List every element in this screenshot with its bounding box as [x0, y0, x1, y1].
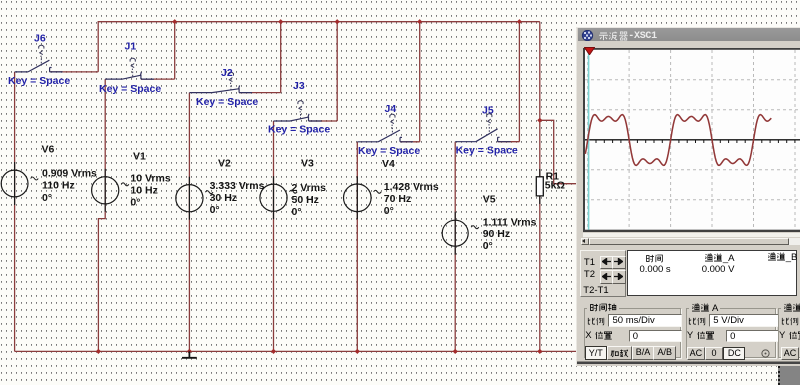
svg-text:V3: V3 [301, 158, 314, 170]
switch J2 closed [189, 85, 252, 92]
cursor readout labels [584, 257, 595, 268]
source V1 circle [92, 177, 119, 204]
wire J4 riser [419, 22, 421, 142]
svg-text:Key = Space: Key = Space [99, 83, 161, 95]
svg-text:V1: V1 [133, 151, 146, 163]
svg-text:10 Hz: 10 Hz [130, 185, 157, 197]
wire J5 right lead [498, 141, 520, 143]
switch J6 key symbol [39, 45, 44, 57]
wire J6 right lead [50, 71, 99, 73]
switch J3 closed [274, 114, 322, 121]
display bottom highlight [583, 233, 800, 236]
switch J4 open [357, 130, 413, 142]
svg-text:50 Hz: 50 Hz [292, 194, 319, 206]
resistor R1 leads [539, 169, 541, 177]
wire V2 branch [188, 93, 190, 352]
wire J3 riser [336, 22, 338, 121]
title bar [578, 28, 800, 41]
svg-text:V4: V4 [382, 158, 395, 170]
svg-text:0°: 0° [384, 205, 394, 217]
svg-text:V6: V6 [42, 144, 55, 156]
svg-text:J3: J3 [293, 80, 305, 92]
wire V5 branch [454, 142, 456, 352]
svg-text:2 Vrms: 2 Vrms [292, 182, 327, 194]
ground symbol [182, 351, 197, 357]
wire V3 branch [273, 121, 275, 351]
source V2 circle [176, 185, 203, 212]
wire J4 right lead [400, 141, 420, 143]
timebase group box [584, 308, 681, 359]
wire R1 riser [539, 22, 541, 177]
svg-text:J4: J4 [385, 103, 397, 115]
svg-text:5kΩ: 5kΩ [545, 180, 565, 192]
svg-text:0°: 0° [130, 197, 140, 209]
svg-text:3.333 Vrms: 3.333 Vrms [210, 180, 265, 192]
switch J1 closed [105, 72, 154, 79]
source V5 circle [442, 220, 468, 246]
window bottom edge [577, 361, 800, 363]
source V6 circle [1, 170, 28, 197]
svg-text:70 Hz: 70 Hz [384, 193, 411, 205]
wire V4 branch [356, 142, 358, 352]
oscilloscope window [576, 27, 800, 366]
svg-text:1.428 Vrms: 1.428 Vrms [384, 181, 439, 193]
svg-text:1.111 Vrms: 1.111 Vrms [483, 216, 537, 228]
channel B group box (cut) [778, 308, 800, 359]
source V4 lead [356, 176, 358, 219]
svg-text:V2: V2 [218, 158, 231, 170]
source V4 tilde [374, 190, 382, 193]
wire J5 riser [518, 22, 520, 142]
wire scope channel A [540, 120, 578, 183]
source V1 tilde [121, 183, 129, 186]
wire J1 right lead [141, 78, 175, 80]
svg-text:Key = Space: Key = Space [358, 145, 420, 157]
labels black [42, 144, 565, 252]
resistor R1 body [536, 177, 543, 196]
source V2 tilde [205, 191, 213, 194]
title icon [581, 30, 594, 41]
wire V1 branch with jog [98, 79, 105, 351]
source V3 lead [273, 176, 275, 219]
cursor control panel [580, 250, 626, 297]
source V3 tilde [290, 190, 298, 193]
svg-text:30 Hz: 30 Hz [210, 192, 237, 204]
svg-text:Key = Space: Key = Space [456, 144, 518, 156]
svg-text:J5: J5 [482, 105, 494, 117]
source V1 lead [104, 169, 106, 212]
svg-text:0.909 Vrms: 0.909 Vrms [42, 167, 97, 179]
wire bottom ground rail [15, 350, 578, 352]
svg-text:0°: 0° [483, 240, 493, 252]
waveform trace [585, 114, 771, 165]
cursor arrow buttons [600, 256, 614, 270]
T1 cursor [588, 50, 590, 230]
source V6 lead [14, 162, 16, 205]
wire top rail [98, 22, 540, 72]
svg-text:V5: V5 [483, 193, 496, 205]
switch J2 key symbol [228, 72, 233, 84]
channel A group box [686, 308, 776, 359]
svg-text:Key = Space: Key = Space [8, 75, 70, 87]
wire R1 bottom lead to rail [539, 196, 541, 352]
wire J3 right lead [309, 120, 338, 122]
wire J2 right lead [239, 92, 281, 94]
svg-text:10 Vrms: 10 Vrms [130, 173, 170, 185]
svg-text:J1: J1 [125, 41, 137, 53]
svg-text:Key = Space: Key = Space [196, 96, 258, 108]
switch J5 key symbol [487, 114, 492, 126]
source V2 lead [188, 177, 190, 220]
readout box [627, 250, 797, 296]
source V3 circle [260, 184, 287, 211]
source V5 tilde [471, 226, 479, 229]
junction dot scope A tap [537, 118, 542, 123]
switch J4 key symbol [390, 114, 395, 126]
title text CJK [598, 31, 629, 41]
scrollbar [581, 238, 800, 245]
svg-text:Key = Space: Key = Space [268, 124, 330, 136]
switch J1 key symbol [130, 58, 135, 70]
switch J5 open [455, 129, 510, 142]
source V4 circle [344, 184, 372, 212]
switch J3 key symbol [298, 101, 303, 113]
wire J1 riser [174, 22, 176, 79]
covered corner block [778, 366, 800, 385]
switch J6 open [15, 60, 63, 72]
svg-text:0°: 0° [292, 206, 302, 218]
T1 marker triangle [584, 47, 595, 55]
svg-text:0°: 0° [42, 192, 52, 204]
scope time axis [585, 138, 800, 140]
display screen [583, 48, 800, 232]
junction dots bottom rail [96, 349, 543, 354]
svg-text:90 Hz: 90 Hz [483, 228, 510, 240]
svg-text:110 Hz: 110 Hz [42, 180, 75, 192]
labels blue [8, 32, 518, 157]
source V6 tilde [31, 177, 39, 180]
wire V6 branch [14, 72, 16, 352]
junction dots top rail [172, 19, 522, 24]
scope grid [585, 50, 800, 230]
svg-text:J6: J6 [34, 32, 46, 44]
wire J2 riser [280, 22, 282, 93]
source V5 lead [454, 212, 456, 255]
svg-text:0°: 0° [210, 204, 220, 216]
svg-text:J2: J2 [221, 67, 233, 79]
